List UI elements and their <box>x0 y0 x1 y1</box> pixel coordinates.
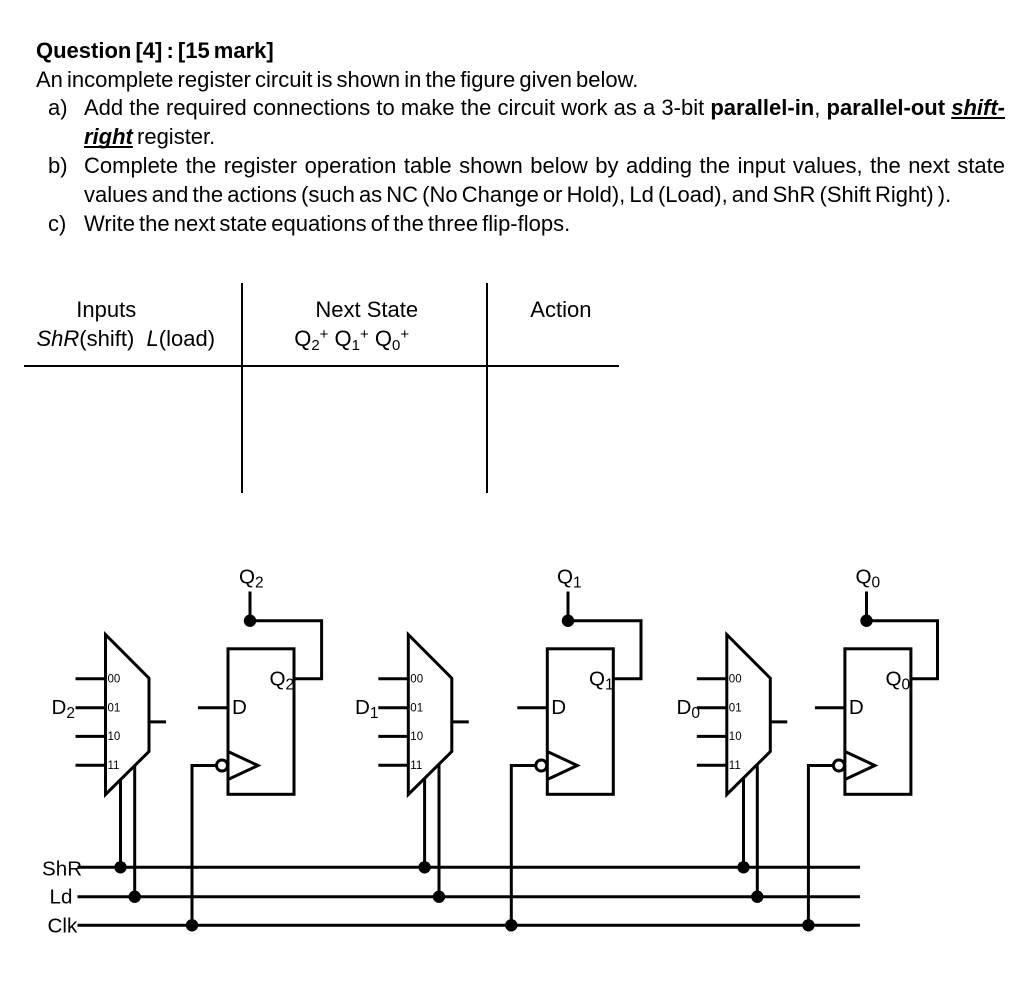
svg-text:10: 10 <box>410 731 423 743</box>
svg-text:D: D <box>232 696 247 719</box>
svg-text:Q1: Q1 <box>589 668 614 694</box>
svg-text:10: 10 <box>108 731 121 743</box>
svg-text:00: 00 <box>729 674 742 686</box>
svg-text:D: D <box>849 696 864 719</box>
svg-text:Q2: Q2 <box>239 566 264 592</box>
svg-text:10: 10 <box>729 731 742 743</box>
svg-text:Q0: Q0 <box>856 566 881 592</box>
svg-text:00: 00 <box>108 674 121 686</box>
svg-text:00: 00 <box>410 674 423 686</box>
svg-text:11: 11 <box>108 760 120 772</box>
svg-text:11: 11 <box>729 760 741 772</box>
svg-text:D1: D1 <box>355 696 379 722</box>
svg-text:Clk: Clk <box>48 915 78 938</box>
svg-text:Ld: Ld <box>50 886 73 909</box>
svg-text:ShR: ShR <box>42 858 82 881</box>
svg-text:11: 11 <box>410 760 422 772</box>
svg-text:Q0: Q0 <box>886 668 911 694</box>
svg-text:Q2: Q2 <box>270 668 295 694</box>
svg-text:D: D <box>551 696 566 719</box>
svg-text:01: 01 <box>108 703 121 715</box>
svg-text:D2: D2 <box>52 696 76 722</box>
svg-text:Q1: Q1 <box>557 566 582 592</box>
svg-text:01: 01 <box>729 703 742 715</box>
svg-text:01: 01 <box>410 703 423 715</box>
svg-text:D0: D0 <box>677 696 701 722</box>
